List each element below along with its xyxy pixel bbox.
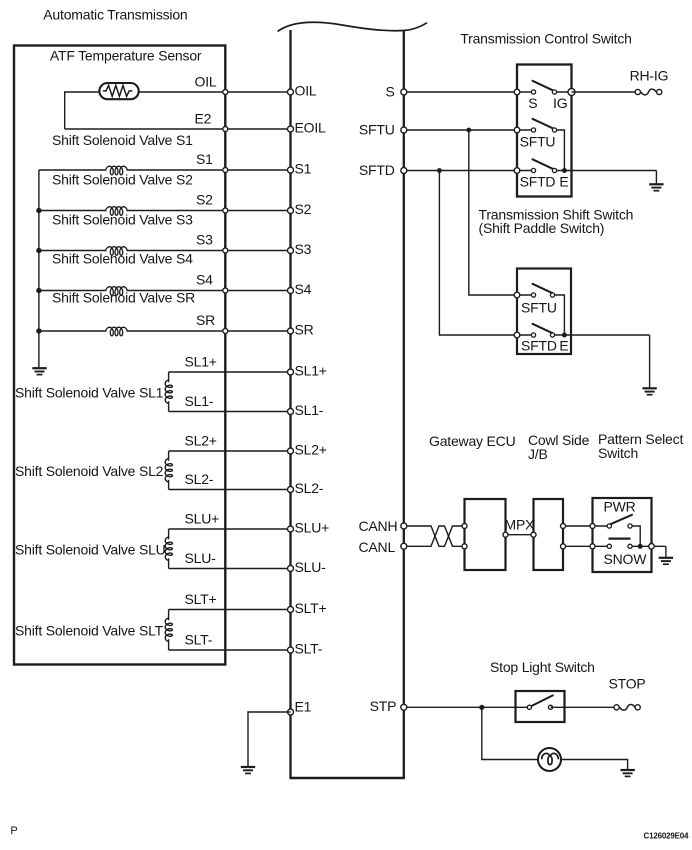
wire J/B to pattern select lower bbox=[563, 545, 593, 547]
solenoid coil L S3 bbox=[106, 247, 128, 256]
svg-text:SFTD: SFTD bbox=[520, 174, 556, 190]
wire SL1+ row bbox=[169, 371, 291, 373]
terminal ECU STP bbox=[401, 704, 407, 710]
wire MPX bbox=[506, 534, 534, 536]
svg-text:SR: SR bbox=[295, 321, 314, 337]
svg-text:S3: S3 bbox=[295, 241, 312, 257]
terminal box edge S1 bbox=[223, 168, 228, 173]
svg-text:C126029E04: C126029E04 bbox=[644, 832, 689, 841]
svg-text:STP: STP bbox=[370, 698, 397, 714]
wire solenoid S4 row bbox=[39, 290, 107, 292]
transmission control switch box bbox=[517, 65, 572, 197]
wire CANH twisted pair bbox=[404, 526, 465, 546]
stop lamp bulb bbox=[538, 748, 561, 771]
wire SLT vertical bbox=[168, 610, 170, 621]
svg-text:S1: S1 bbox=[295, 160, 312, 176]
stop light switch box bbox=[516, 691, 565, 722]
junction pattern common bbox=[638, 544, 643, 549]
solenoid coil L SLT bbox=[165, 618, 172, 642]
svg-text:CANH: CANH bbox=[359, 518, 398, 534]
svg-text:STOP: STOP bbox=[609, 675, 646, 691]
svg-text:SL2-: SL2- bbox=[185, 471, 214, 487]
terminal paddle SFTD bbox=[514, 332, 520, 338]
svg-text:SLU-: SLU- bbox=[295, 559, 327, 575]
terminal ECU S bbox=[401, 89, 407, 95]
terminal ECU S2 bbox=[288, 208, 294, 214]
terminal TCS right IG bbox=[568, 89, 575, 96]
wire paddle SFTU row inside bbox=[517, 294, 534, 296]
wire paddle SFTU to E bbox=[553, 295, 565, 335]
svg-text:Automatic Transmission: Automatic Transmission bbox=[43, 7, 187, 23]
terminal TCS left SFTD bbox=[514, 168, 520, 174]
svg-text:MPX: MPX bbox=[505, 516, 536, 532]
svg-text:E1: E1 bbox=[295, 699, 312, 715]
svg-text:E: E bbox=[559, 174, 568, 190]
wire SNOW row inside and out bbox=[593, 545, 610, 547]
wire stop switch to STOP bbox=[551, 706, 617, 708]
svg-text:SL2-: SL2- bbox=[295, 480, 324, 496]
wire paddle E ground drop bbox=[649, 335, 651, 388]
wire paddle SFTD row inside and E out bbox=[517, 334, 534, 336]
connector STOP bbox=[614, 705, 619, 710]
contact SFTU left bbox=[531, 128, 535, 132]
terminal ECU SL1- bbox=[288, 409, 294, 415]
svg-text:CANL: CANL bbox=[359, 539, 396, 555]
svg-text:SLT-: SLT- bbox=[185, 632, 213, 648]
terminal ECU SL2+ bbox=[288, 448, 294, 454]
wire SLU vertical bbox=[168, 529, 170, 539]
wire SFTU row bbox=[404, 129, 517, 131]
solenoid coil L SR bbox=[106, 327, 128, 336]
ground E1 bbox=[241, 766, 255, 768]
contact SFTD left bbox=[531, 168, 535, 172]
solenoid coil L SLU bbox=[165, 537, 172, 561]
terminal pattern right bbox=[649, 544, 655, 550]
svg-text:SFTU: SFTU bbox=[520, 134, 556, 150]
svg-text:SL1+: SL1+ bbox=[295, 362, 327, 378]
switch SFTU blade bbox=[533, 119, 553, 129]
ground pattern select bbox=[659, 557, 673, 559]
switch SNOW blade closed bbox=[609, 537, 631, 539]
wire SLT+ row bbox=[169, 609, 291, 611]
svg-text:E: E bbox=[559, 338, 568, 354]
svg-text:Shift Solenoid Valve S3: Shift Solenoid Valve S3 bbox=[52, 212, 193, 228]
svg-text:S1: S1 bbox=[196, 151, 213, 167]
wire SLT- row bbox=[169, 649, 291, 651]
wire TCS E ground drop bbox=[655, 171, 657, 185]
contact paddle SFTD right bbox=[550, 333, 554, 337]
switch SFTD blade bbox=[533, 159, 553, 169]
terminal ECU S3 bbox=[288, 248, 294, 254]
svg-text:Shift Solenoid Valve S1: Shift Solenoid Valve S1 bbox=[52, 132, 193, 148]
svg-text:SLT+: SLT+ bbox=[295, 600, 327, 616]
wire solenoid S3 row bbox=[39, 250, 107, 252]
svg-text:S4: S4 bbox=[196, 272, 213, 288]
terminal box edge S2 bbox=[223, 208, 228, 213]
contact S bbox=[531, 90, 535, 94]
wire STP row bbox=[404, 706, 530, 708]
gateway ECU box bbox=[465, 499, 506, 570]
wire SFTU branch to paddle switch bbox=[469, 130, 517, 295]
wire SLU- row bbox=[169, 568, 291, 570]
svg-text:P: P bbox=[10, 825, 17, 837]
terminal ECU S1 bbox=[288, 167, 294, 173]
wire TCS SFTD row inside and E out bbox=[517, 170, 534, 172]
svg-text:SR: SR bbox=[196, 312, 215, 328]
contact SNOW left bbox=[607, 544, 611, 548]
ECU bus bottom line bbox=[289, 777, 405, 779]
terminal ECU SR bbox=[288, 328, 294, 334]
ground solenoid common bbox=[32, 367, 46, 369]
svg-text:SNOW: SNOW bbox=[604, 551, 648, 567]
terminal pattern SNOW bbox=[590, 544, 595, 549]
junction paddle E common bbox=[562, 333, 567, 338]
svg-text:SL1-: SL1- bbox=[185, 393, 214, 409]
connector RH-IG bbox=[635, 89, 640, 94]
svg-text:SL1-: SL1- bbox=[295, 402, 324, 418]
wire TCS SFTU row inside bbox=[517, 129, 534, 131]
svg-text:S: S bbox=[528, 95, 537, 111]
junction stop light branch bbox=[479, 705, 484, 710]
terminal ECU SLT+ bbox=[288, 607, 294, 613]
svg-text:S2: S2 bbox=[295, 201, 312, 217]
junction SR common bbox=[36, 328, 41, 333]
contact PWR left bbox=[607, 524, 611, 528]
svg-text:Shift Solenoid Valve SL1: Shift Solenoid Valve SL1 bbox=[15, 384, 164, 400]
terminal box edge S3 bbox=[223, 248, 228, 253]
wire SLU+ row bbox=[169, 528, 291, 530]
wire solenoid S1 row bbox=[39, 169, 107, 171]
switch paddle SFTU blade bbox=[533, 284, 553, 294]
svg-text:S3: S3 bbox=[196, 232, 213, 248]
terminal ECU E1 bbox=[288, 709, 294, 715]
contact stop right bbox=[548, 705, 552, 709]
contact PWR right bbox=[628, 524, 632, 528]
wire OIL row bbox=[139, 91, 291, 93]
terminal ECU OIL bbox=[288, 89, 294, 95]
svg-text:Shift Solenoid Valve S4: Shift Solenoid Valve S4 bbox=[52, 251, 193, 267]
terminal ECU EOIL bbox=[288, 126, 294, 132]
junction S4 common bbox=[36, 288, 41, 293]
wire lamp to ground bbox=[561, 760, 628, 771]
terminal box edge S4 bbox=[223, 288, 228, 293]
terminal ECU SLT- bbox=[288, 647, 294, 653]
svg-text:IG: IG bbox=[553, 95, 567, 111]
pattern select switch box bbox=[593, 498, 652, 572]
terminal ECU SL1+ bbox=[288, 369, 294, 375]
svg-text:OIL: OIL bbox=[195, 74, 217, 90]
wire J/B to pattern select upper bbox=[563, 525, 593, 527]
junction E common bbox=[562, 168, 567, 173]
contact paddle SFTU left bbox=[531, 293, 535, 297]
terminal ECU SL2- bbox=[288, 487, 294, 493]
svg-text:RH-IG: RH-IG bbox=[630, 67, 669, 83]
wire SL2+ row bbox=[169, 450, 291, 452]
terminal ECU CANH bbox=[401, 523, 407, 529]
switch paddle SFTD blade bbox=[533, 324, 553, 334]
svg-text:Shift Solenoid Valve SR: Shift Solenoid Valve SR bbox=[52, 290, 195, 306]
wire S row bbox=[404, 91, 517, 93]
wire E1 to ground bbox=[248, 712, 291, 767]
ATF temperature sensor thermistor R bbox=[99, 83, 138, 99]
contact paddle SFTD left bbox=[531, 333, 535, 337]
svg-text:S: S bbox=[386, 84, 395, 100]
svg-text:SFTD: SFTD bbox=[359, 162, 395, 178]
terminal ECU SLU- bbox=[288, 566, 294, 572]
junction SFTU branch bbox=[466, 128, 471, 133]
transmission shift switch box bbox=[517, 269, 571, 355]
ECU bus right line bbox=[403, 31, 405, 778]
wire TCS S row inside bbox=[517, 91, 534, 93]
terminal box edge SR bbox=[223, 329, 228, 334]
terminal ECU CANL bbox=[401, 543, 407, 549]
svg-text:SLU+: SLU+ bbox=[295, 519, 330, 535]
switch S-IG blade bbox=[533, 81, 553, 91]
contact SFTD right bbox=[552, 168, 556, 172]
svg-text:Shift Solenoid Valve SLU: Shift Solenoid Valve SLU bbox=[15, 541, 166, 557]
solenoid coil L S2 bbox=[106, 207, 128, 216]
wire solenoid common ground line bbox=[38, 170, 40, 368]
ECU bus left line bbox=[289, 30, 291, 778]
terminal gateway MPX bbox=[503, 532, 508, 537]
wire TCS SFTU to E bbox=[555, 130, 565, 171]
wire SFTD branch to paddle switch bbox=[439, 171, 517, 336]
switch PWR blade bbox=[611, 515, 633, 524]
svg-text:SFTU: SFTU bbox=[521, 300, 557, 316]
svg-text:SLU+: SLU+ bbox=[185, 511, 220, 527]
terminal paddle SFTU bbox=[514, 292, 520, 298]
terminal pattern PWR bbox=[590, 524, 595, 529]
terminal ECU SFTU bbox=[401, 127, 407, 133]
svg-text:SLU-: SLU- bbox=[185, 550, 217, 566]
wire thermistor left lead bbox=[65, 92, 100, 129]
contact IG bbox=[552, 90, 556, 94]
switch stop light blade bbox=[532, 695, 553, 705]
ground TCS E bbox=[649, 183, 663, 185]
terminal J/B right lower bbox=[561, 544, 566, 549]
svg-text:(Shift Paddle Switch): (Shift Paddle Switch) bbox=[479, 220, 605, 236]
svg-text:Stop Light Switch: Stop Light Switch bbox=[490, 659, 595, 675]
automatic transmission box bbox=[14, 46, 225, 665]
junction S2 common bbox=[36, 208, 41, 213]
terminal box edge EOIL bbox=[223, 127, 228, 132]
svg-text:Shift Solenoid Valve SLT: Shift Solenoid Valve SLT bbox=[15, 622, 164, 638]
svg-text:SL2+: SL2+ bbox=[295, 441, 327, 457]
cowl side J/B box bbox=[534, 499, 564, 570]
wire SFTD row bbox=[404, 170, 517, 172]
wire pattern ground drop bbox=[665, 546, 667, 558]
svg-text:SFTU: SFTU bbox=[359, 122, 395, 138]
wire solenoid S2 row bbox=[39, 210, 107, 212]
wire SL1 vertical bbox=[168, 372, 170, 382]
junction S3 common bbox=[36, 248, 41, 253]
terminal ECU SFTD bbox=[401, 168, 407, 174]
svg-text:EOIL: EOIL bbox=[295, 119, 327, 135]
terminal ECU SLU+ bbox=[288, 526, 294, 532]
svg-text:Shift Solenoid Valve SL2: Shift Solenoid Valve SL2 bbox=[15, 463, 164, 479]
terminal J/B right upper bbox=[561, 524, 566, 529]
svg-text:Shift Solenoid Valve S2: Shift Solenoid Valve S2 bbox=[52, 172, 193, 188]
ground stop lamp bbox=[620, 769, 634, 771]
solenoid coil L SL2 bbox=[165, 459, 172, 483]
solenoid coil L S1 bbox=[106, 166, 128, 175]
terminal J/B MPX bbox=[531, 532, 536, 537]
junction SFTD branch bbox=[437, 168, 442, 173]
wire PWR row inside bbox=[593, 525, 610, 527]
svg-text:SLT+: SLT+ bbox=[185, 591, 217, 607]
terminal TCS left S bbox=[514, 89, 520, 95]
solenoid coil L S4 bbox=[106, 287, 128, 296]
svg-text:OIL: OIL bbox=[295, 82, 317, 98]
wire CANL twisted pair bbox=[404, 526, 465, 546]
wire solenoid SR row bbox=[39, 330, 107, 332]
svg-text:SFTD: SFTD bbox=[521, 338, 557, 354]
wire IG to RH-IG bbox=[572, 91, 638, 93]
terminal gateway CANL bbox=[462, 544, 467, 549]
contact paddle SFTU right bbox=[550, 293, 554, 297]
contact SFTU right bbox=[552, 128, 556, 132]
svg-text:PWR: PWR bbox=[604, 499, 636, 515]
svg-text:Gateway ECU: Gateway ECU bbox=[429, 433, 516, 449]
svg-text:ATF Temperature Sensor: ATF Temperature Sensor bbox=[50, 48, 202, 64]
wire stop lamp branch bbox=[482, 707, 538, 759]
wire SL2 vertical bbox=[168, 451, 170, 461]
solenoid coil L SL1 bbox=[165, 380, 172, 404]
terminal box edge OIL bbox=[223, 90, 228, 95]
svg-text:J/B: J/B bbox=[528, 446, 548, 462]
svg-text:E2: E2 bbox=[195, 111, 212, 127]
svg-text:S2: S2 bbox=[196, 192, 213, 208]
wire SL2- row bbox=[169, 489, 291, 491]
terminal ECU S4 bbox=[288, 288, 294, 294]
wire E2/EOIL row bbox=[65, 128, 291, 130]
wire SL1- row bbox=[169, 411, 291, 413]
svg-text:Switch: Switch bbox=[598, 445, 638, 461]
terminal TCS left SFTU bbox=[514, 127, 520, 133]
svg-text:Transmission Control Switch: Transmission Control Switch bbox=[460, 31, 631, 47]
ground paddle E bbox=[642, 387, 656, 389]
svg-text:SL1+: SL1+ bbox=[185, 354, 217, 370]
wire PWR to common bbox=[630, 526, 640, 546]
ECU bus break squiggle bbox=[278, 22, 428, 31]
svg-text:SL2+: SL2+ bbox=[185, 433, 217, 449]
contact stop left bbox=[527, 705, 531, 709]
contact SNOW right bbox=[628, 544, 632, 548]
terminal gateway CANH bbox=[462, 524, 467, 529]
svg-text:SLT-: SLT- bbox=[295, 640, 323, 656]
svg-text:S4: S4 bbox=[295, 281, 312, 297]
